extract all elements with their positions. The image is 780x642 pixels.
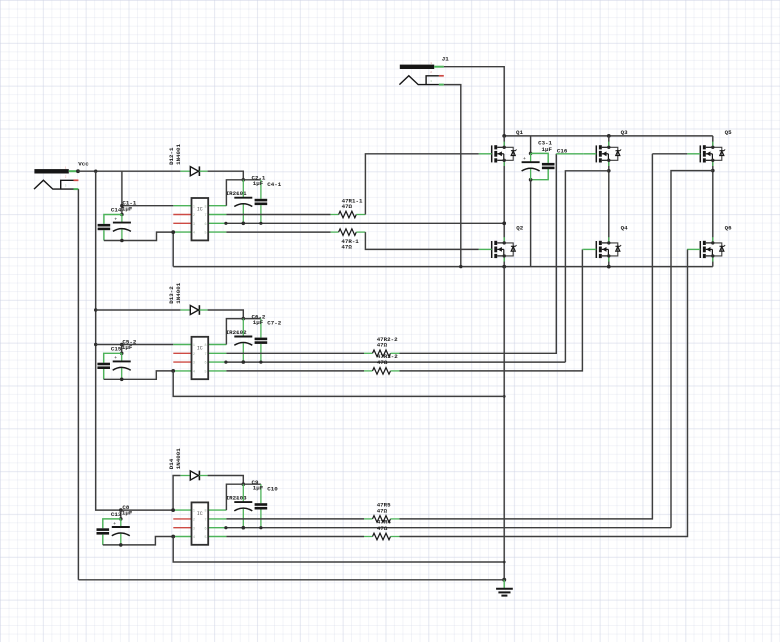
gate driver IR2102 [173, 337, 226, 379]
capacitor C8 [112, 519, 130, 545]
svg-text:3: 3 [193, 223, 195, 227]
svg-text:1μF: 1μF [253, 180, 264, 187]
svg-text:3: 3 [430, 80, 432, 83]
ground [496, 580, 513, 596]
wire pin7 to resistor [226, 518, 364, 520]
svg-text:1μF: 1μF [122, 510, 133, 517]
wire C16 top link [531, 153, 549, 163]
node VS pin corner [224, 361, 227, 364]
svg-text:6: 6 [205, 362, 207, 366]
svg-text:Q5: Q5 [725, 129, 732, 136]
wire bottom link to COM [103, 537, 173, 545]
node Q2 source on bus [502, 265, 506, 269]
node block2 COM tie [503, 395, 506, 398]
node top bus / Q1 drain [502, 134, 506, 138]
svg-text:Q3: Q3 [621, 129, 628, 136]
svg-text:+: + [236, 193, 239, 198]
wire phase A: Q1 source to Q2 drain [503, 160, 505, 243]
wire Q4 source to bus [608, 256, 610, 267]
capacitor C16 [542, 163, 555, 169]
node VS pin corner [224, 222, 227, 225]
svg-text:4: 4 [193, 371, 195, 375]
wire VS net block 2 [226, 361, 565, 363]
wire block3 COM to ground (line A) [173, 537, 504, 563]
svg-text:C13: C13 [111, 511, 122, 518]
capacitor C4-1 [255, 180, 268, 224]
wire pin7 to resistor [226, 352, 364, 354]
node ground junction [502, 578, 506, 582]
node decoupling cap top [120, 213, 124, 217]
wire bottom link to COM [104, 232, 173, 240]
node VB [242, 317, 246, 321]
wire D14 cathode to VB corner [208, 476, 244, 485]
wire C13 bottom down [102, 535, 104, 545]
wire phase B: Q3 source to Q4 drain [608, 160, 610, 243]
node block3 VCC junction [171, 508, 175, 512]
svg-text:C7-2: C7-2 [267, 320, 281, 327]
wire pin5 to resistor [226, 370, 364, 372]
connector Vcc [34, 167, 78, 190]
node electrolytic bottom on VS [242, 360, 246, 364]
node Q4 source on bus [607, 265, 611, 269]
svg-text:4: 4 [193, 536, 195, 540]
wire cap tap drop [120, 510, 122, 519]
wire Q6 source to bus [712, 256, 714, 267]
svg-text:Q1: Q1 [516, 129, 523, 136]
svg-text:Q6: Q6 [725, 225, 732, 232]
node decoupling cap top [120, 352, 124, 356]
capacitor C13 [97, 528, 110, 534]
node C3-1 bottom [529, 178, 533, 182]
svg-text:D12-1: D12-1 [168, 147, 175, 165]
svg-text:3: 3 [65, 185, 67, 188]
gate driver IR2103 [173, 502, 226, 544]
svg-text:1: 1 [193, 344, 195, 348]
svg-text:47Ω: 47Ω [377, 342, 388, 349]
node electrolytic bottom on VS [242, 526, 246, 530]
resistor 47R5 [364, 516, 400, 523]
svg-text:C15: C15 [111, 345, 122, 352]
capacitor C5-2 [113, 353, 131, 379]
svg-text:3: 3 [193, 362, 195, 366]
wire pin5 to resistor [226, 536, 364, 538]
resistor 47R3-2 [364, 368, 400, 375]
wire VB to ceramic top [243, 318, 261, 320]
wire phase B tap to left [565, 171, 608, 362]
node VS pin corner [224, 526, 227, 529]
node VCC pin tap [120, 204, 124, 208]
wire VS net block 1 [226, 222, 504, 224]
node C3-1 top [529, 152, 533, 156]
connector J1 [399, 62, 443, 85]
wire D12-1 cathode to VB corner [208, 171, 244, 180]
node electrolytic bottom [120, 239, 124, 243]
wire VB to ceramic top [243, 483, 261, 485]
capacitor C7-2 [255, 319, 268, 363]
node block3 COM tie [503, 561, 506, 564]
node ceramic bottom on VS [259, 526, 262, 529]
wire Vcc rail to D12-1 [78, 170, 180, 172]
wire C14 bottom down [103, 230, 105, 240]
capacitor C14 [98, 224, 111, 230]
capacitor C1-1 [113, 215, 131, 241]
wire C15 bottom down [103, 369, 105, 379]
wire block2 COM to ground [173, 371, 504, 397]
svg-text:+: + [114, 356, 117, 361]
svg-text:7: 7 [205, 519, 207, 523]
svg-text:+: + [236, 497, 239, 502]
svg-text:+: + [236, 331, 239, 336]
svg-text:1μF: 1μF [542, 146, 553, 153]
wire Q2 source to bus [503, 256, 505, 267]
svg-text:1μF: 1μF [122, 344, 133, 351]
svg-text:47Ω: 47Ω [341, 244, 352, 251]
transistor Q3 [583, 142, 621, 166]
wire C16 bottom link [531, 168, 549, 180]
wire block2 Vcc rail [96, 309, 181, 311]
svg-text:3: 3 [193, 527, 195, 531]
diode D12-1 [180, 166, 207, 176]
node cap tap on rail [119, 508, 123, 512]
wire C3-1 bottom to source bus [530, 180, 532, 267]
svg-text:2: 2 [65, 176, 67, 179]
node VS tie to phase A [502, 222, 506, 226]
wire pin5 to resistor [226, 231, 330, 233]
resistor 47R1-1 [331, 211, 366, 218]
svg-text:J1: J1 [442, 55, 449, 62]
transistor Q6 [687, 237, 725, 261]
wire VB to pin8 lead [226, 180, 243, 206]
svg-text:Vcc: Vcc [78, 160, 89, 167]
node COM pin junction [171, 369, 175, 373]
wire HO to Q3 gate [400, 154, 557, 353]
capacitor C6-2 [234, 319, 252, 363]
svg-text:Q4: Q4 [621, 225, 628, 232]
wire top bus corner down to Q5 drain [712, 136, 714, 147]
capacitor C15 [97, 363, 110, 369]
svg-text:1μF: 1μF [253, 319, 264, 326]
wire HO to Q5 gate [400, 154, 653, 519]
wire VB to ceramic top [243, 179, 261, 181]
svg-text:IC: IC [197, 345, 203, 351]
capacitor C10 [255, 484, 268, 528]
svg-text:1N4001: 1N4001 [175, 448, 182, 469]
svg-text:4: 4 [193, 232, 195, 236]
node decoupling cap top [119, 517, 123, 521]
transistor Q4 [583, 237, 621, 261]
wire C3-1 top to bus [530, 136, 532, 154]
svg-text:47Ω: 47Ω [377, 525, 388, 532]
wire block3 rail riser [173, 476, 180, 511]
diode D14 [180, 471, 207, 481]
svg-text:1μF: 1μF [253, 484, 264, 491]
svg-text:1N4001: 1N4001 [175, 144, 182, 165]
svg-text:2: 2 [193, 353, 195, 357]
wire bracket to small cap [104, 215, 122, 224]
svg-text:D13-2: D13-2 [168, 286, 175, 304]
wire Q3 drain to top bus [608, 136, 610, 147]
wire HO-A to Q1 gate [365, 154, 478, 215]
wire VCC pin wire [122, 205, 173, 207]
transistor Q1 [479, 142, 517, 166]
svg-text:+: + [113, 522, 116, 527]
node electrolytic bottom on VS [242, 222, 246, 226]
node electrolytic bottom [119, 543, 123, 547]
svg-text:C4-1: C4-1 [267, 181, 281, 188]
wire bracket to small cap [103, 519, 121, 528]
svg-text:1: 1 [193, 510, 195, 514]
wire bottom link to COM [104, 371, 174, 379]
transistor Q2 [479, 237, 517, 261]
wire LO-A to Q2 gate [365, 232, 478, 249]
wire ground line B [78, 579, 504, 581]
svg-text:2: 2 [193, 214, 195, 218]
wire VS net block 3 [226, 527, 671, 529]
wire Vcc distribution bus (x=95.7) [96, 171, 173, 510]
wire block1 COM down to source bus [172, 232, 174, 267]
diode D13-2 [180, 305, 207, 315]
svg-text:5: 5 [205, 232, 207, 236]
node J1 sleeve on source bus [459, 265, 462, 268]
wire VB to pin8 lead [226, 319, 243, 345]
svg-text:D14: D14 [168, 458, 175, 469]
node COM pin junction [171, 535, 175, 539]
svg-text:5: 5 [205, 536, 207, 540]
svg-text:1: 1 [193, 205, 195, 209]
svg-text:2: 2 [193, 519, 195, 523]
wire bracket to small cap [104, 353, 122, 362]
svg-text:7: 7 [205, 353, 207, 357]
capacitor C2-1 [234, 180, 252, 224]
wire J1 sleeve down to source bus [444, 85, 461, 267]
resistor 47R2-2 [364, 350, 400, 357]
svg-text:6: 6 [205, 223, 207, 227]
svg-text:IC: IC [197, 207, 203, 213]
node Vcc junction [76, 169, 80, 173]
capacitor C3-1 1uF [522, 153, 540, 179]
node cap tap on rail [120, 343, 124, 347]
transistor Q5 [687, 142, 725, 166]
wire cap tap drop [121, 345, 123, 354]
svg-text:8: 8 [205, 510, 207, 514]
wire Vcc sleeve to ground bus (left vertical) [77, 189, 79, 580]
wire VB to pin8 lead [226, 484, 243, 510]
node block2 rail tap [94, 308, 97, 311]
node block2 VCC pin tap [94, 343, 97, 346]
wire pin7 to resistor [226, 214, 330, 216]
node ceramic bottom on VS [259, 361, 262, 364]
wire block2 VCC pin feed [96, 344, 174, 346]
node VB [242, 482, 246, 486]
wire Q1 drain to top bus [503, 136, 505, 147]
svg-text:47Ω: 47Ω [377, 359, 388, 366]
node top bus / Q3 drain [607, 134, 611, 138]
svg-text:5: 5 [205, 371, 207, 375]
svg-text:1N4001: 1N4001 [175, 282, 182, 303]
svg-text:C10: C10 [267, 485, 278, 492]
node ceramic bottom on VS [259, 222, 262, 225]
resistor 47R-1 [331, 229, 366, 236]
svg-text:IC: IC [197, 511, 203, 517]
wire phase C tap to left [671, 171, 713, 528]
wire Vcc rail drop to VCC pin [121, 171, 123, 214]
resistor 47R4 [364, 533, 400, 540]
node VB [242, 178, 246, 182]
gate driver IR2101 [173, 198, 226, 240]
svg-text:Q2: Q2 [516, 225, 523, 232]
svg-text:6: 6 [205, 527, 207, 531]
svg-text:8: 8 [205, 205, 207, 209]
wire bottom source bus (battery -) [173, 266, 713, 268]
node Vcc bus tap [94, 170, 97, 173]
svg-text:1μF: 1μF [122, 205, 133, 212]
svg-text:47Ω: 47Ω [342, 203, 353, 210]
wire D13-2 cathode to VB corner [208, 310, 244, 319]
wire LO to Q4 gate [400, 249, 583, 371]
svg-text:8: 8 [205, 344, 207, 348]
svg-text:+: + [523, 157, 526, 162]
capacitor C9 [234, 484, 252, 528]
svg-text:7: 7 [205, 214, 207, 218]
wire LO to Q6 gate [400, 249, 688, 536]
node phase B tap [607, 169, 611, 173]
svg-text:C14: C14 [111, 207, 122, 214]
wire ground vertical [503, 267, 505, 580]
svg-text:+: + [114, 217, 117, 222]
wire J1 tip to top bus [444, 67, 504, 136]
svg-text:47Ω: 47Ω [377, 507, 388, 514]
node electrolytic bottom [120, 378, 124, 382]
node phase C tap [711, 169, 715, 173]
svg-text:2: 2 [430, 71, 432, 74]
node phase A / VS-A tap [502, 222, 506, 226]
wire phase C: Q5 source to Q6 drain [712, 160, 714, 243]
wire top bus (battery +) [504, 135, 713, 137]
node COM pin junction [171, 230, 175, 234]
